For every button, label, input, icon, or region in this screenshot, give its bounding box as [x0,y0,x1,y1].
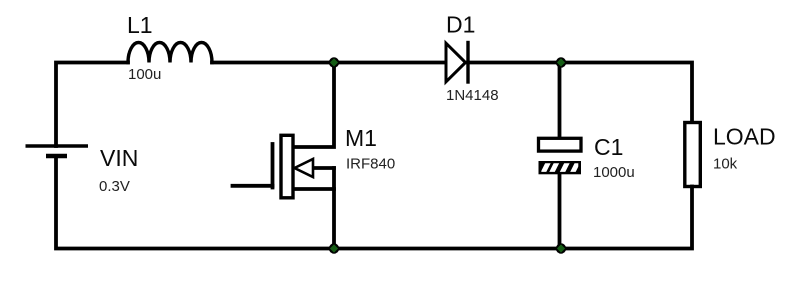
svg-text:1000u: 1000u [593,164,635,181]
inductor L1 [128,43,212,63]
node B (output node, top) [556,57,566,67]
wire mosfet bulk arrow stub [312,166,334,170]
resistor LOAD [685,123,701,187]
wire diode cathode to out node [468,61,561,65]
transistor M1 gate bar [271,144,275,188]
svg-text:D1: D1 [446,12,475,38]
wire capacitor top lead [558,63,562,139]
node D (cap node, bottom) [556,243,566,253]
wire battery top to top-left corner to inductor [56,63,128,147]
wire out node to top-right corner down to load [561,63,692,123]
transistor M1 channel [281,135,293,198]
svg-text:VIN: VIN [100,145,138,171]
svg-text:0.3V: 0.3V [99,178,130,195]
wire mosfet source down [332,168,336,249]
wire mosfet source stub [293,187,334,191]
wire capacitor bottom lead [558,174,562,249]
transistor M1 bulk arrow [295,159,314,177]
wire mosfet drain up [293,63,334,148]
svg-text:1N4148: 1N4148 [446,87,499,104]
svg-text:M1: M1 [345,125,377,151]
wire load bottom to bottom-right corner to cap node [561,187,692,249]
battery VIN top plate [26,144,89,147]
wire drain node to diode anode [334,61,446,65]
svg-text:LOAD: LOAD [713,124,776,150]
svg-text:10k: 10k [713,156,738,173]
svg-text:100u: 100u [128,66,161,83]
battery VIN bottom plate [46,154,67,159]
svg-text:C1: C1 [594,134,623,160]
diode D1 [446,43,468,83]
svg-text:L1: L1 [127,12,153,38]
capacitor C1 top plate [539,138,582,151]
capacitor C1 bottom plate (hatched) [539,160,582,176]
wire source node to bottom-left corner to battery bottom [56,156,334,249]
svg-text:IRF840: IRF840 [346,156,395,173]
wire inductor to drain node [212,61,334,65]
wire cap node to source node (bottom rail) [334,247,561,251]
node C (source node, bottom) [329,243,339,253]
wire mosfet gate lead [233,184,273,188]
node A (drain node, top) [329,57,339,67]
